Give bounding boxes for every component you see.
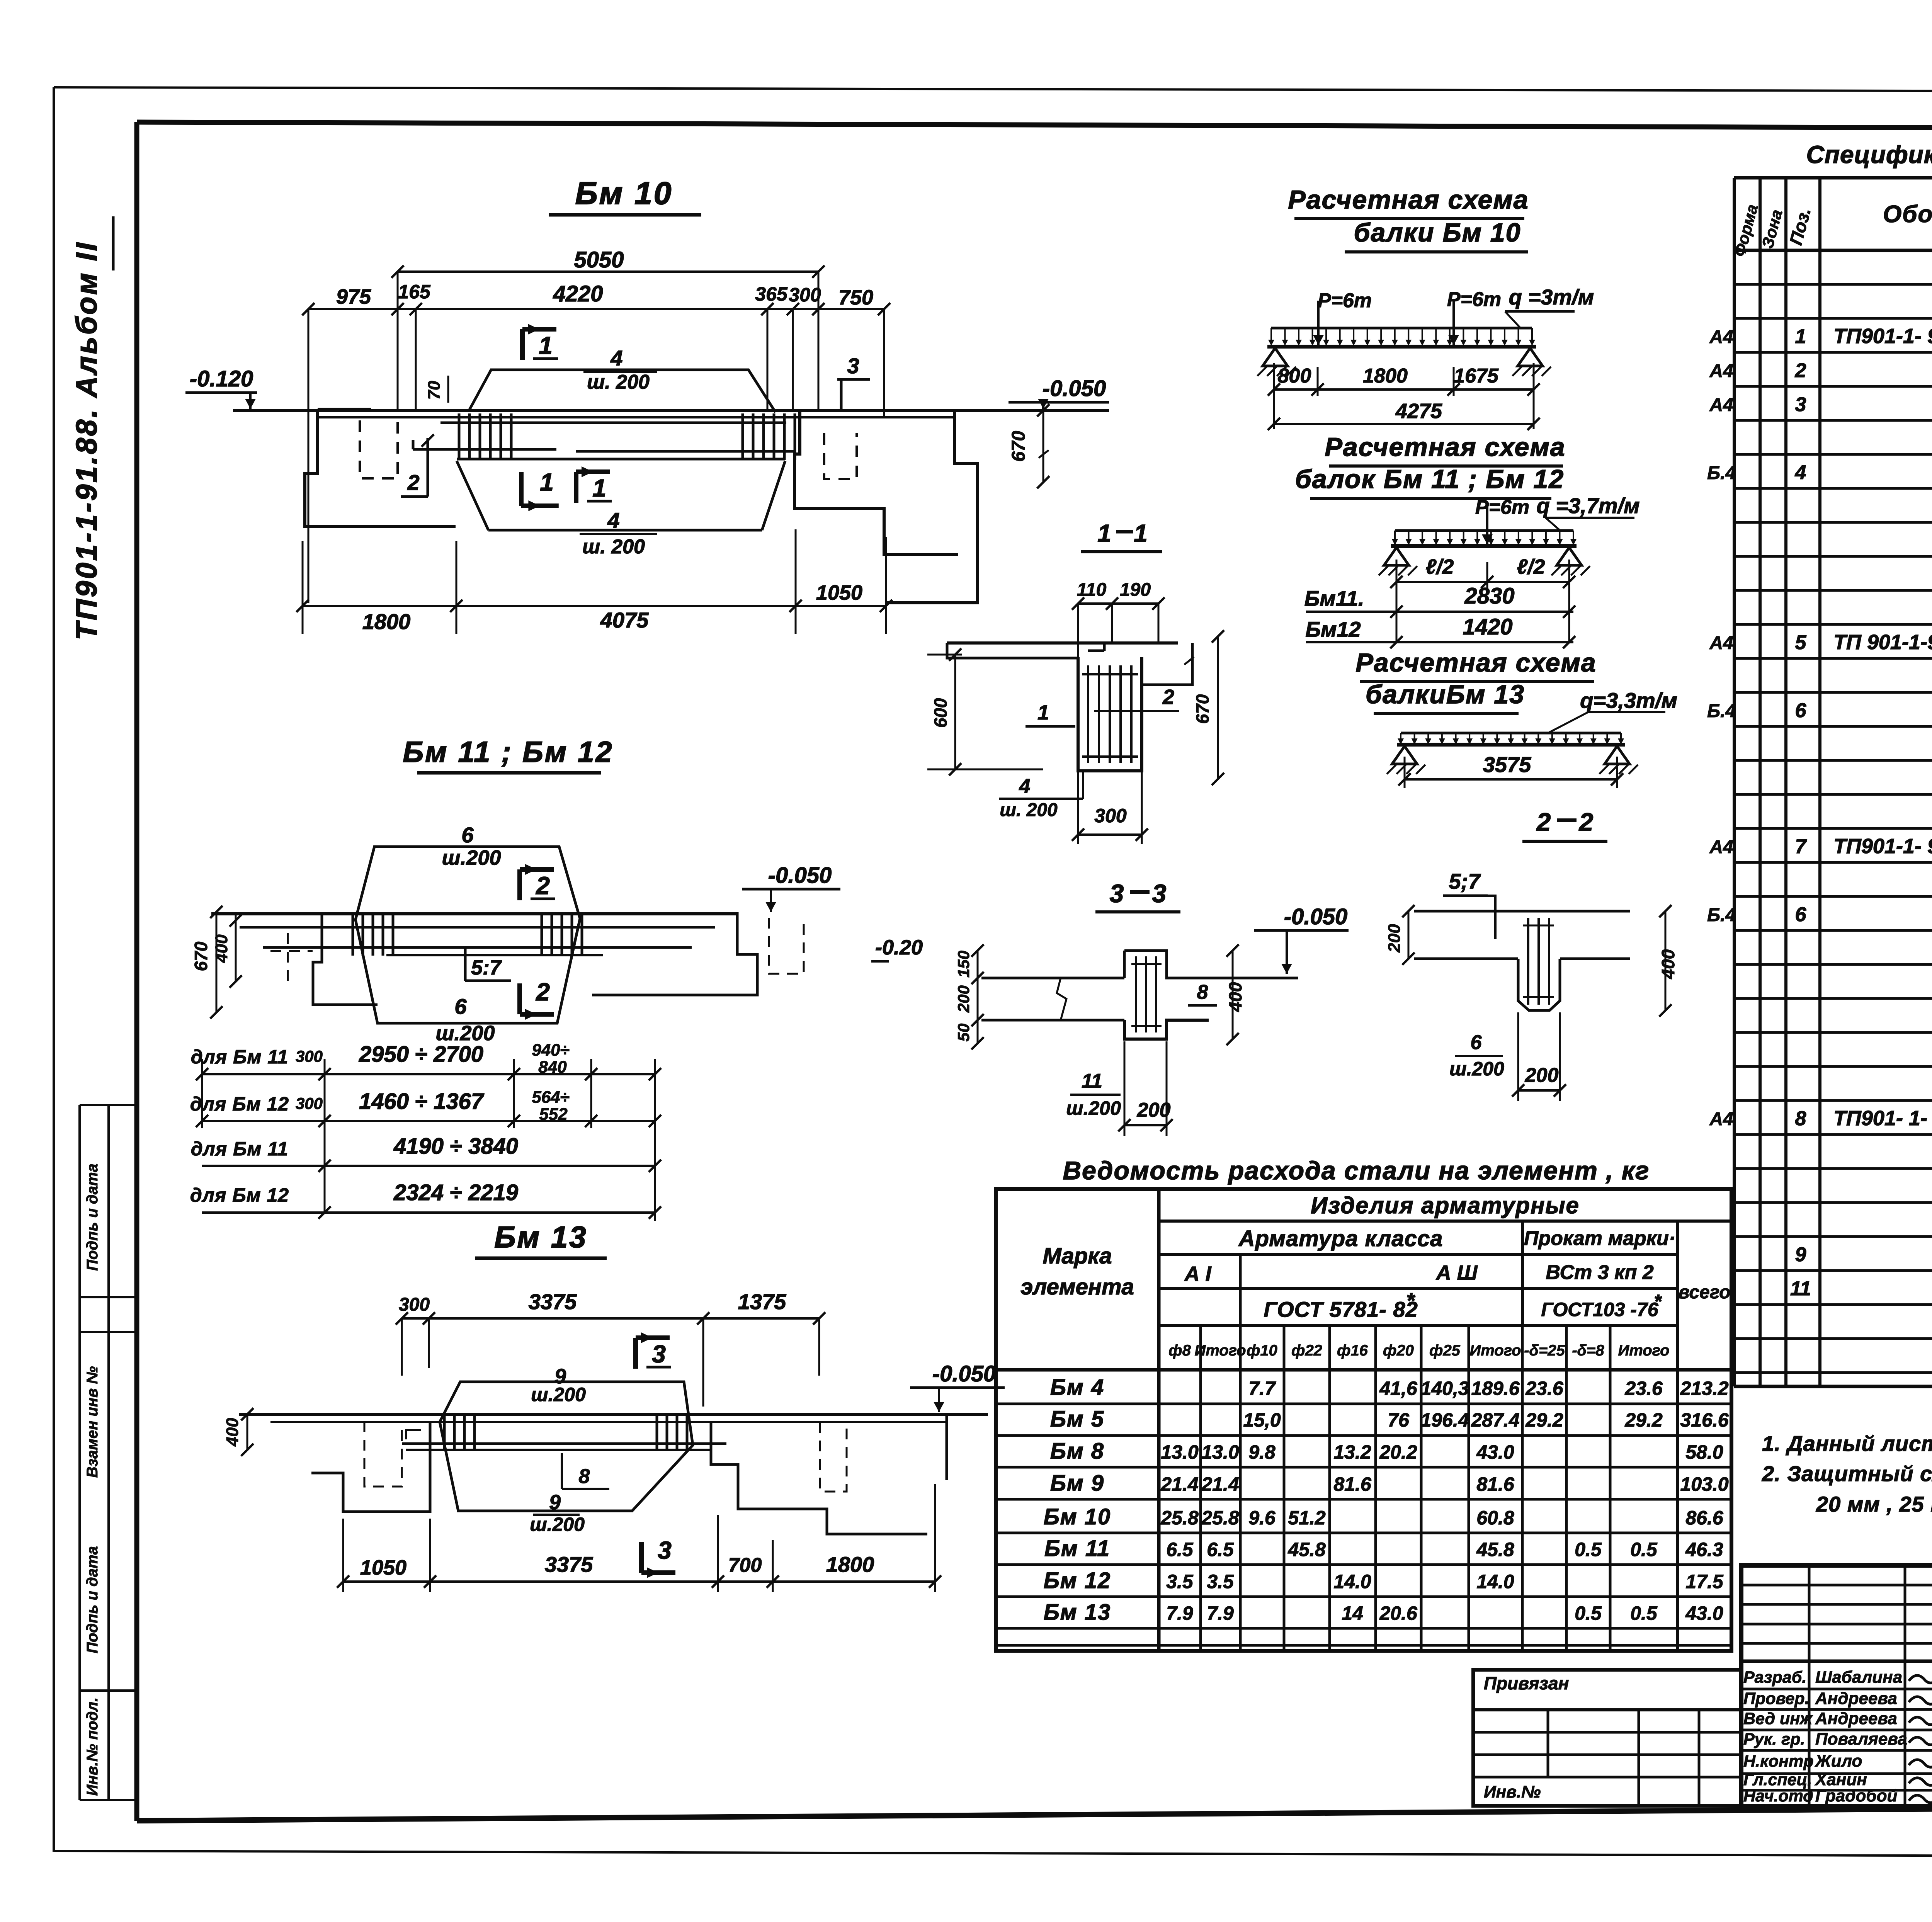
Bm10 right wall hidden dashes (824, 433, 857, 479)
section 1-1 labels 1 2 (1026, 685, 1179, 726)
svg-text:1: 1 (1795, 325, 1806, 348)
svg-text:Бм 11: Бм 11 (1044, 1536, 1110, 1561)
svg-text:300: 300 (1094, 805, 1127, 827)
svg-text:Н.контр: Н.контр (1743, 1752, 1814, 1771)
svg-text:81.6: 81.6 (1476, 1473, 1515, 1495)
svg-text:43.0: 43.0 (1685, 1602, 1723, 1624)
svg-text:1050: 1050 (816, 581, 862, 604)
svg-text:Б.4: Б.4 (1707, 905, 1736, 925)
section 1-1 rebar (1082, 665, 1138, 763)
svg-text:Нач.отд: Нач.отд (1743, 1787, 1813, 1805)
Bm10 section flags 1 bottom (521, 466, 612, 511)
svg-text:всего: всего (1679, 1282, 1731, 1303)
section 2-2 dim 200 bottom (1512, 1012, 1566, 1101)
svg-text:5050: 5050 (574, 247, 624, 272)
svg-text:670: 670 (191, 941, 211, 971)
svg-text:q =3,7т/м: q =3,7т/м (1536, 493, 1639, 518)
svg-text:2: 2 (1162, 685, 1174, 709)
svg-text:4075: 4075 (600, 608, 649, 632)
svg-text:-0.050: -0.050 (1284, 904, 1347, 929)
svg-text:45.8: 45.8 (1287, 1539, 1326, 1560)
svg-text:3: 3 (652, 1340, 666, 1368)
svg-text:670: 670 (1192, 694, 1213, 724)
section 1-1 mesh label 4 (999, 772, 1083, 820)
svg-text:8: 8 (1795, 1107, 1806, 1130)
svg-text:7.9: 7.9 (1166, 1602, 1193, 1624)
beam Bm13 title (475, 1220, 607, 1258)
svg-text:1: 1 (1097, 519, 1111, 547)
section 3-3 label 8 (1163, 981, 1217, 1005)
svg-text:ф22: ф22 (1291, 1342, 1322, 1359)
svg-text:1800: 1800 (1363, 365, 1408, 387)
svg-text:1: 1 (540, 468, 554, 496)
svg-text:2: 2 (1578, 808, 1594, 836)
svg-text:200: 200 (1137, 1099, 1171, 1121)
calc scheme Bm11 row 2830 (1304, 583, 1575, 618)
svg-text:Взамен инв №: Взамен инв № (84, 1366, 101, 1478)
section 3-3 title (1095, 879, 1180, 912)
margin column lines (80, 1105, 137, 1800)
svg-text:400: 400 (1225, 982, 1245, 1012)
svg-text:2: 2 (536, 978, 550, 1006)
svg-text:17.5: 17.5 (1685, 1571, 1724, 1592)
svg-text:Обозначение: Обозначение (1883, 201, 1932, 228)
svg-text:7.9: 7.9 (1207, 1602, 1234, 1624)
svg-text:Изделия арматурные: Изделия арматурные (1311, 1192, 1580, 1218)
Bm10 left wall outline (305, 409, 456, 526)
calc scheme Bm13 beam (1387, 733, 1638, 774)
calc scheme Bm10 beam (1257, 347, 1551, 376)
section 1-1 title (1081, 519, 1162, 552)
svg-text:9.8: 9.8 (1248, 1441, 1276, 1463)
svg-text:для Бм 12: для Бм 12 (190, 1184, 289, 1206)
svg-text:11: 11 (1082, 1070, 1102, 1092)
spec table rows content (1707, 254, 1932, 1334)
Bm13 mesh hexagon (440, 1365, 693, 1535)
svg-text:70: 70 (425, 381, 444, 400)
svg-text:750: 750 (838, 286, 873, 309)
section 3-3 dim 200 (1118, 1041, 1173, 1136)
level mark -0.050 at Bm11 (742, 863, 840, 912)
Bm13 dim 400 left (223, 1408, 253, 1456)
svg-text:Расчетная схема: Расчетная схема (1325, 432, 1565, 462)
svg-text:Итого: Итого (1618, 1342, 1669, 1359)
title block outline (1741, 1565, 1932, 1806)
svg-text:Инв.№: Инв.№ (1484, 1783, 1541, 1801)
svg-text:P=6т: P=6т (1475, 496, 1529, 519)
svg-text:8: 8 (1197, 981, 1208, 1004)
svg-text:200: 200 (1385, 924, 1404, 953)
svg-text:41,6: 41,6 (1379, 1378, 1418, 1399)
svg-text:-0.120: -0.120 (190, 366, 253, 391)
svg-text:q=3,3т/м: q=3,3т/м (1580, 688, 1677, 713)
svg-text:ТП901-1- 91. 88: ТП901-1- 91. 88 (1833, 325, 1932, 348)
svg-text:140,3: 140,3 (1420, 1378, 1469, 1399)
level mark -0.120 (185, 366, 257, 409)
svg-text:150: 150 (954, 951, 973, 978)
svg-text:4: 4 (1795, 461, 1806, 484)
svg-text:365: 365 (755, 283, 788, 305)
calc scheme title Bm11 Bm12 (1295, 432, 1566, 498)
svg-text:6.5: 6.5 (1166, 1539, 1194, 1560)
svg-text:2: 2 (536, 872, 550, 900)
Bm13 left wall (311, 1421, 430, 1512)
svg-text:103.0: 103.0 (1680, 1473, 1728, 1495)
svg-text:-0.050: -0.050 (768, 863, 832, 888)
svg-text:Гл.спец.: Гл.спец. (1743, 1771, 1812, 1789)
section 2-2 label 5;7 (1443, 869, 1495, 939)
svg-text:-0.050: -0.050 (932, 1361, 996, 1386)
calc scheme Bm12 row 1420 (1305, 614, 1575, 648)
calc scheme Bm10 loads (1268, 285, 1594, 346)
svg-text:3375: 3375 (529, 1289, 577, 1314)
svg-text:Бм11.: Бм11. (1304, 586, 1364, 611)
svg-text:700: 700 (728, 1554, 762, 1577)
svg-text:ГОСТ 5781- 82: ГОСТ 5781- 82 (1264, 1297, 1418, 1322)
svg-text:Градобой: Градобой (1815, 1786, 1897, 1805)
svg-text:Ведомость расхода стали на: Ведомость расхода стали на элемент , кг (1063, 1156, 1650, 1185)
svg-text:Итого: Итого (1194, 1342, 1246, 1359)
svg-text:ℓ/2: ℓ/2 (1426, 555, 1454, 578)
svg-text:Бм 13: Бм 13 (494, 1220, 587, 1254)
svg-text:975: 975 (336, 285, 371, 308)
svg-text:9: 9 (549, 1491, 561, 1514)
svg-text:Андреева: Андреева (1815, 1689, 1897, 1708)
svg-text:Бм 9: Бм 9 (1050, 1471, 1104, 1496)
Bm13 slab lines (239, 1414, 988, 1450)
svg-text:7.7: 7.7 (1248, 1378, 1276, 1399)
svg-text:Арматура класса: Арматура класса (1238, 1226, 1443, 1251)
svg-text:ш.200: ш.200 (435, 1022, 495, 1045)
Bm10 section flag 1 top (522, 324, 558, 360)
Bm10 dim 70 (425, 376, 448, 403)
svg-text:3575: 3575 (1483, 752, 1531, 777)
svg-text:ш.200: ш.200 (531, 1384, 586, 1405)
svg-text:P=6т: P=6т (1447, 288, 1501, 311)
section 3-3 rebar (1131, 956, 1162, 1032)
svg-text:3375: 3375 (545, 1552, 593, 1577)
section 1-1 outline (947, 643, 1192, 771)
svg-text:Итого: Итого (1469, 1342, 1521, 1359)
svg-text:ш.200: ш.200 (530, 1514, 585, 1535)
svg-text:А4: А4 (1709, 327, 1733, 347)
svg-text:ш.200: ш.200 (1449, 1058, 1504, 1080)
steel table data (1044, 1375, 1729, 1625)
svg-text:6.5: 6.5 (1207, 1539, 1234, 1560)
title block revision grid (1741, 1565, 1932, 1806)
svg-text:Спецификация к балкам Бм 10: Спецификация к балкам Бм 10 ÷ Бм 13 (1806, 141, 1932, 168)
svg-text:элемента: элемента (1020, 1274, 1134, 1299)
svg-text:ш.200: ш.200 (1066, 1097, 1121, 1119)
svg-text:2324 ÷ 2219: 2324 ÷ 2219 (393, 1180, 518, 1205)
svg-text:13.2: 13.2 (1333, 1441, 1371, 1463)
svg-text:q =3т/м: q =3т/м (1509, 285, 1594, 309)
svg-text:20.2: 20.2 (1379, 1441, 1417, 1463)
svg-text:29.2: 29.2 (1525, 1409, 1563, 1431)
svg-text:1460 ÷ 1367: 1460 ÷ 1367 (359, 1089, 485, 1114)
svg-text:*: * (1406, 1288, 1415, 1313)
svg-text:300: 300 (296, 1094, 323, 1112)
svg-text:А Ш: А Ш (1435, 1261, 1478, 1284)
svg-text:ℓ/2: ℓ/2 (1517, 555, 1545, 578)
Bm10 upper mesh trapezoid 4 sh.200 (469, 346, 776, 412)
svg-text:1375: 1375 (738, 1289, 786, 1314)
svg-text:25.8: 25.8 (1201, 1507, 1239, 1529)
svg-text:4: 4 (1019, 775, 1031, 798)
svg-text:800: 800 (1278, 365, 1311, 387)
svg-text:Бм12: Бм12 (1305, 617, 1361, 641)
svg-text:76: 76 (1388, 1409, 1410, 1431)
svg-text:2: 2 (1536, 808, 1551, 836)
Bm13 section flag 3 bottom (641, 1536, 675, 1578)
Bm11 dim table row4 (190, 1059, 661, 1221)
svg-text:21.4: 21.4 (1160, 1473, 1198, 1495)
svg-text:51.2: 51.2 (1288, 1507, 1326, 1529)
svg-text:13.0: 13.0 (1161, 1441, 1199, 1463)
svg-text:Андреева: Андреева (1815, 1709, 1897, 1728)
calc scheme Bm10 dims (1268, 363, 1540, 430)
svg-text:4275: 4275 (1395, 400, 1442, 423)
Bm11 section flags 2 (520, 864, 555, 1020)
svg-text:для Бм 11: для Бм 11 (191, 1046, 289, 1068)
Bm11 dim table row2 (190, 1088, 661, 1127)
svg-text:Б.4: Б.4 (1707, 463, 1736, 483)
svg-text:600: 600 (930, 698, 951, 728)
svg-text:А4: А4 (1709, 837, 1733, 857)
svg-text:0.5: 0.5 (1575, 1602, 1602, 1624)
svg-text:P=6т: P=6т (1318, 289, 1372, 312)
Bm10 label 3 (837, 354, 870, 409)
svg-text:46.3: 46.3 (1685, 1539, 1723, 1560)
svg-text:6: 6 (454, 994, 467, 1019)
svg-text:ф8: ф8 (1168, 1342, 1191, 1359)
svg-text:1: 1 (592, 474, 606, 502)
Bm10 right wall outline (794, 410, 978, 603)
svg-text:213.2: 213.2 (1680, 1378, 1728, 1399)
Bm10 stirrup cluster right (743, 413, 795, 460)
svg-text:ф20: ф20 (1383, 1342, 1414, 1359)
svg-text:81.6: 81.6 (1333, 1473, 1372, 1495)
Bm11 label 5:7 (465, 947, 511, 981)
beam Bm11 Bm12 title (403, 736, 613, 773)
svg-text:165: 165 (398, 281, 431, 303)
svg-text:1800: 1800 (826, 1552, 874, 1577)
svg-text:ш. 200: ш. 200 (587, 371, 650, 393)
svg-text:ш.200: ш.200 (442, 846, 501, 869)
svg-text:564÷: 564÷ (532, 1088, 570, 1107)
Bm11 right wall (560, 912, 804, 995)
svg-text:5:7: 5:7 (471, 956, 502, 979)
svg-text:Бм 10: Бм 10 (1044, 1504, 1111, 1529)
Bm11 left dims 670 400 (191, 906, 242, 1019)
Bm10 dimension 5050 (391, 247, 825, 278)
svg-text:670: 670 (1009, 431, 1029, 462)
Bm11 mesh hexagon (355, 823, 580, 1045)
section 3-3 break mark (1057, 978, 1066, 1020)
Bm10 dimension row 975/165/4220/365/300/750 (302, 272, 890, 603)
svg-text:А I: А I (1184, 1262, 1211, 1286)
svg-text:13.0: 13.0 (1201, 1441, 1239, 1463)
Bm13 stirrups (444, 1416, 687, 1451)
svg-text:Бм 12: Бм 12 (1044, 1568, 1111, 1593)
section 1-1 dim 670 (1184, 630, 1224, 785)
level mark -0.050 at 3-3 (1254, 904, 1349, 974)
svg-text:Расчетная схема: Расчетная схема (1288, 185, 1529, 214)
section 3-3 mesh label 11 (1066, 1070, 1121, 1119)
svg-text:Вед инж: Вед инж (1743, 1709, 1813, 1728)
svg-text:50: 50 (954, 1024, 973, 1042)
svg-text:*: * (1654, 1291, 1662, 1312)
svg-text:4190 ÷ 3840: 4190 ÷ 3840 (393, 1134, 518, 1159)
section 2-2 rebar cage (1523, 918, 1554, 1005)
svg-text:для Бм 11: для Бм 11 (191, 1138, 289, 1160)
calc scheme Bm13 dim 3575 (1398, 752, 1623, 788)
svg-text:14.0: 14.0 (1333, 1571, 1371, 1592)
svg-text:23.6: 23.6 (1624, 1378, 1663, 1399)
section 2-2 dim 400 right (1658, 905, 1678, 1017)
calc scheme title Bm13 (1355, 648, 1677, 732)
svg-text:45.8: 45.8 (1476, 1539, 1514, 1560)
margin stamp text TP901 (70, 216, 113, 640)
svg-text:2: 2 (1795, 359, 1806, 382)
svg-text:940÷: 940÷ (532, 1041, 570, 1060)
level mark -0.050 at Bm13 (910, 1361, 1005, 1412)
svg-text:-0.20: -0.20 (875, 936, 923, 959)
steel table grid (996, 1189, 1731, 1651)
svg-text:316.6: 316.6 (1680, 1409, 1729, 1431)
svg-text:0.5: 0.5 (1630, 1602, 1658, 1624)
calc scheme Bm11 loads (1392, 493, 1640, 545)
steel table title (1063, 1156, 1650, 1185)
svg-text:6: 6 (1471, 1031, 1482, 1054)
section 3-3 dim 400 (1225, 944, 1245, 1045)
svg-text:7: 7 (1795, 835, 1807, 858)
svg-text:ТП901- 1- 91. 88 -КЖИ1- С18: ТП901- 1- 91. 88 -КЖИ1- С18 (1833, 1107, 1932, 1130)
svg-text:400: 400 (1658, 949, 1678, 979)
svg-text:2. Защитный слой бетона для: 2. Защитный слой бетона для рабочей арма… (1762, 1461, 1932, 1486)
svg-text:11: 11 (1790, 1277, 1811, 1300)
svg-text:А4: А4 (1709, 1109, 1733, 1129)
svg-text:25.8: 25.8 (1160, 1507, 1199, 1529)
svg-text:1675: 1675 (1454, 365, 1499, 387)
svg-text:14.0: 14.0 (1476, 1571, 1514, 1592)
svg-text:3: 3 (1110, 879, 1124, 908)
svg-text:-δ=8: -δ=8 (1572, 1342, 1604, 1359)
svg-text:-0.050: -0.050 (1043, 376, 1106, 401)
svg-text:21.4: 21.4 (1201, 1473, 1239, 1495)
Bm10 dim 670 right (1009, 404, 1049, 488)
svg-text:Бм 5: Бм 5 (1050, 1407, 1104, 1432)
svg-text:287.4: 287.4 (1471, 1409, 1519, 1431)
level mark -0.200 right edge (871, 936, 923, 961)
privyazan box (1473, 1670, 1741, 1806)
Bm10 beam chord and rebar lines (413, 423, 795, 459)
calc scheme Bm11 dims (1390, 555, 1575, 641)
section 3-3 left dims 150 200 50 (954, 944, 1020, 1049)
Bm10 left wall hidden dashes (360, 420, 398, 478)
svg-text:ф16: ф16 (1337, 1342, 1368, 1359)
svg-text:Б.4: Б.4 (1707, 701, 1736, 721)
svg-text:Рук. гр.: Рук. гр. (1743, 1730, 1805, 1749)
svg-text:1: 1 (1134, 519, 1148, 547)
section 3-3 outline (981, 951, 1298, 1039)
svg-text:0.5: 0.5 (1630, 1539, 1658, 1560)
svg-text:300: 300 (789, 284, 821, 306)
Bm11 dim table row3 (191, 1059, 661, 1213)
svg-text:86.6: 86.6 (1685, 1507, 1724, 1529)
svg-text:Подпь и дата: Подпь и дата (84, 1163, 101, 1271)
section 1-1 dim 110 190 (1072, 580, 1165, 657)
svg-text:8: 8 (579, 1465, 590, 1488)
svg-text:15,0: 15,0 (1243, 1409, 1281, 1431)
svg-text:1800: 1800 (362, 609, 411, 634)
section 2-2 mesh label 6 (1449, 1020, 1530, 1080)
title block signatures squiggles (1909, 1672, 1932, 1803)
svg-text:Разраб.: Разраб. (1743, 1668, 1806, 1687)
svg-text:для Бм 12: для Бм 12 (190, 1093, 289, 1115)
svg-text:Жило: Жило (1815, 1752, 1862, 1771)
svg-text:190: 190 (1120, 580, 1151, 600)
svg-text:1: 1 (539, 332, 553, 359)
section 1-1 dim 600 (927, 648, 1043, 776)
section 2-2 title (1522, 808, 1607, 841)
svg-text:Прокат марки·: Прокат марки· (1524, 1227, 1675, 1250)
svg-text:Подпь и дата: Подпь и дата (84, 1546, 101, 1653)
Bm11 slab lines (211, 914, 737, 955)
svg-text:2950 ÷ 2700: 2950 ÷ 2700 (359, 1042, 483, 1067)
section 1-1 dim 300 (1072, 772, 1148, 844)
svg-text:Провер.: Провер. (1743, 1689, 1810, 1708)
svg-text:400: 400 (212, 934, 231, 963)
svg-text:300: 300 (399, 1294, 430, 1315)
svg-text:4220: 4220 (553, 281, 603, 306)
svg-text:6: 6 (461, 823, 474, 847)
svg-text:1: 1 (1037, 701, 1049, 724)
svg-text:балок Бм 11 ; Бм 12: балок Бм 11 ; Бм 12 (1295, 464, 1564, 494)
svg-text:60.8: 60.8 (1476, 1507, 1514, 1529)
title block signature rows (1741, 1661, 1932, 1806)
svg-text:43.0: 43.0 (1476, 1441, 1514, 1463)
svg-text:Привязан: Привязан (1484, 1673, 1569, 1693)
svg-text:ТП 901-1-91. 88 КЖИ1 С16: ТП 901-1-91. 88 КЖИ1 С16 (1833, 631, 1932, 654)
svg-text:20.6: 20.6 (1379, 1602, 1418, 1624)
svg-text:20 мм , 25 мм.: 20 мм , 25 мм. (1816, 1492, 1932, 1516)
svg-text:196.4: 196.4 (1420, 1409, 1469, 1431)
svg-text:Шабалина: Шабалина (1815, 1668, 1902, 1687)
svg-text:189.6: 189.6 (1471, 1378, 1520, 1399)
svg-text:3: 3 (1795, 393, 1806, 416)
notes (1762, 1431, 1932, 1516)
svg-text:Марка: Марка (1043, 1243, 1112, 1269)
svg-text:200: 200 (954, 985, 973, 1013)
svg-text:А4: А4 (1709, 361, 1733, 381)
Bm10 lower mesh trapezoid 4 sh.200 (457, 461, 785, 558)
svg-text:2830: 2830 (1464, 583, 1514, 609)
svg-text:Бм 13: Бм 13 (1044, 1600, 1111, 1625)
svg-text:23.6: 23.6 (1525, 1378, 1564, 1399)
svg-text:ВСт 3 кп 2: ВСт 3 кп 2 (1546, 1261, 1653, 1284)
Bm11 left wall (270, 914, 378, 1005)
calc scheme Bm11 beam (1379, 546, 1590, 575)
svg-text:5;7: 5;7 (1449, 869, 1481, 893)
svg-text:4: 4 (607, 508, 619, 532)
svg-text:29.2: 29.2 (1624, 1409, 1663, 1431)
svg-text:А4: А4 (1709, 395, 1733, 415)
svg-text:1. Данный лист рассматривать: 1. Данный лист рассматривать совместно с… (1762, 1431, 1932, 1456)
svg-text:2: 2 (407, 470, 419, 495)
steel table header texts (1020, 1192, 1730, 1359)
svg-text:Бм 10: Бм 10 (575, 176, 673, 211)
